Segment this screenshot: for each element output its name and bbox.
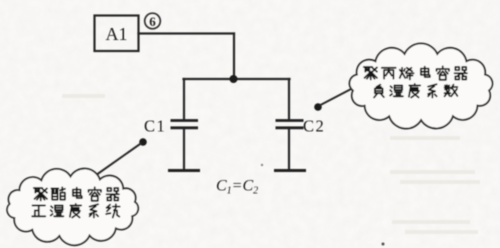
svg-text:C2: C2	[303, 117, 325, 136]
wire top bus between C1 and C2	[184, 78, 290, 80]
right cloud bubble	[349, 44, 492, 129]
svg-text:A1: A1	[106, 24, 128, 44]
wire C1 upper lead	[183, 79, 185, 119]
callout dot near C2	[314, 103, 322, 111]
capacitor C2 plates	[276, 121, 304, 128]
wire C2 lower lead	[288, 129, 290, 169]
callout dot near C1	[139, 138, 147, 146]
bleed-through ghost marks	[62, 96, 480, 232]
text polypropylene capacitor	[364, 66, 467, 80]
text positive temperature system	[32, 204, 120, 218]
left cloud bubble	[7, 169, 138, 246]
speck marks	[261, 164, 263, 166]
wire C2 upper lead	[288, 79, 290, 119]
capacitor C1 bottom terminal bar	[168, 169, 200, 172]
pin number bubble circled 6	[145, 13, 161, 29]
wire vertical drop to bus	[233, 34, 235, 80]
callout leader line left cloud	[94, 143, 142, 177]
svg-text:C1: C1	[144, 117, 166, 136]
capacitor C1 plates	[171, 121, 199, 128]
capacitor C2 bottom terminal bar	[274, 169, 306, 172]
op-amp block A1 box	[95, 16, 139, 52]
wire C1 lower lead	[183, 129, 185, 169]
wire from A1 pin to corner	[139, 32, 235, 34]
text polyester capacitor	[34, 187, 119, 201]
svg-text:6: 6	[149, 14, 156, 29]
svg-text:C1=C2: C1=C2	[216, 178, 258, 197]
callout leader line right cloud	[320, 88, 354, 106]
node junction dot at bus	[230, 75, 238, 83]
text negative temperature coefficient	[374, 84, 457, 98]
